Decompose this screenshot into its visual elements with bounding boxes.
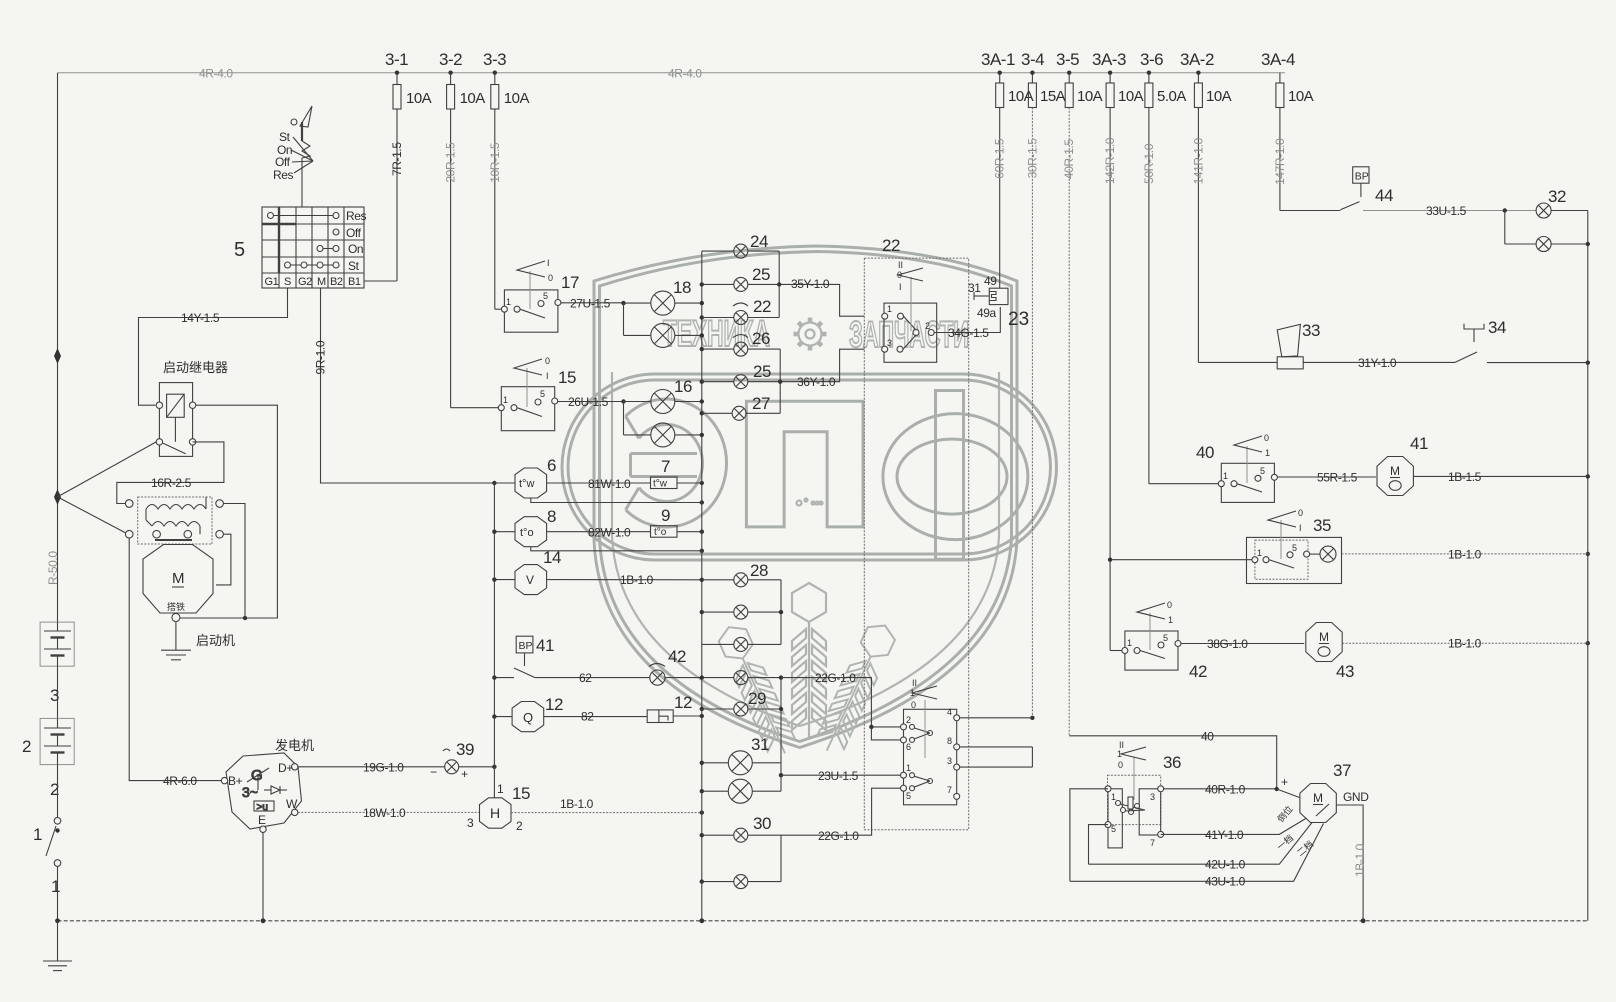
svg-text:10A: 10A xyxy=(1077,88,1103,105)
svg-text:30: 30 xyxy=(753,814,771,833)
svg-text:3~: 3~ xyxy=(242,784,258,800)
lamp 16b xyxy=(624,423,702,447)
lamp 31a xyxy=(702,751,781,775)
battery 1 box xyxy=(40,622,74,666)
lamp 16a xyxy=(624,390,702,414)
svg-text:M: M xyxy=(1390,464,1400,478)
wire E to bus xyxy=(262,832,264,920)
svg-text:25: 25 xyxy=(752,265,770,284)
ground main xyxy=(43,961,72,971)
svg-text:B1: B1 xyxy=(348,276,361,288)
wire solenoid right top down xyxy=(223,504,245,619)
table column labels xyxy=(265,276,361,288)
svg-text:27U-1.5: 27U-1.5 xyxy=(570,297,611,311)
lamp 32b xyxy=(1505,237,1588,252)
svg-text:3А-4: 3А-4 xyxy=(1261,50,1295,69)
starter bottom terminal xyxy=(172,614,180,622)
wire bus to V xyxy=(494,579,515,581)
wire bus to Q xyxy=(494,716,512,718)
svg-text:31Y-1.0: 31Y-1.0 xyxy=(1358,356,1397,370)
svg-text:0: 0 xyxy=(1118,760,1123,770)
svg-text:18: 18 xyxy=(673,278,691,297)
tachometer Q 12 xyxy=(512,702,544,732)
svg-text:1: 1 xyxy=(51,877,60,896)
wire 82W-1.0 xyxy=(547,526,651,540)
svg-text:5: 5 xyxy=(1260,466,1265,476)
wire 55R-1.5 xyxy=(1277,471,1376,485)
switch 36 contacts xyxy=(1105,740,1164,848)
svg-text:5: 5 xyxy=(1111,824,1116,834)
wire 62 xyxy=(494,671,649,685)
wire pin1 to 43U xyxy=(1070,789,1108,882)
watermark capsule outer xyxy=(562,374,1057,560)
svg-text:17: 17 xyxy=(561,273,579,292)
svg-text:t°w: t°w xyxy=(519,478,534,490)
wire 38G-1.0 xyxy=(1181,637,1304,651)
svg-text:B2: B2 xyxy=(330,276,343,288)
svg-text:39: 39 xyxy=(456,740,474,759)
svg-text:147R-1.0: 147R-1.0 xyxy=(1273,138,1287,185)
wire pin5 to 42U xyxy=(1089,825,1109,865)
wire solenoid to border tap xyxy=(58,497,126,533)
node lamp16 junction xyxy=(621,399,625,403)
svg-text:40R-1.5: 40R-1.5 xyxy=(1062,139,1076,180)
wire right border xyxy=(1587,211,1589,921)
svg-text:3-1: 3-1 xyxy=(385,50,408,69)
svg-text:62: 62 xyxy=(579,671,592,685)
gauge t°o 8 xyxy=(515,517,547,547)
wire 1B-1.5 xyxy=(1413,470,1587,484)
svg-text:St: St xyxy=(279,130,291,144)
svg-text:1B-1.5: 1B-1.5 xyxy=(1448,470,1482,484)
fuse 3-1 10A xyxy=(393,73,432,109)
wire 147R to switch44 xyxy=(1280,210,1341,212)
svg-text:32: 32 xyxy=(1548,187,1566,206)
wire 142R to 42 xyxy=(1110,650,1122,652)
svg-text:43U-1.0: 43U-1.0 xyxy=(1205,875,1246,889)
svg-text:22: 22 xyxy=(753,297,771,316)
node 25b row right xyxy=(778,380,782,384)
svg-text:0: 0 xyxy=(1264,433,1269,443)
wire 14Y-1.5 xyxy=(139,288,288,405)
svg-text:25: 25 xyxy=(753,362,771,381)
svg-text:34G-1.5: 34G-1.5 xyxy=(948,326,989,340)
svg-text:19G-1.0: 19G-1.0 xyxy=(363,761,404,775)
svg-text:0: 0 xyxy=(1298,508,1303,518)
svg-text:31: 31 xyxy=(751,735,769,754)
watermark shield thin inner line xyxy=(612,372,999,726)
lamp group 30 xyxy=(702,828,781,888)
watermark letter E (Э) xyxy=(626,399,727,527)
fuse 3-2 10A xyxy=(447,73,486,109)
battery 2 cells xyxy=(44,718,71,764)
svg-text:E: E xyxy=(258,813,266,827)
wire 20R to switch15 xyxy=(451,407,499,409)
svg-text:26U-1.5: 26U-1.5 xyxy=(568,395,609,409)
lamp in 35 xyxy=(1310,546,1336,562)
svg-text:33: 33 xyxy=(1302,321,1320,340)
node fuse taps on top bus xyxy=(395,71,399,75)
wire 23U-1.5 xyxy=(781,769,901,783)
table contacts On row xyxy=(317,246,339,252)
svg-text:3-5: 3-5 xyxy=(1056,50,1079,69)
lamp on row 677 xyxy=(702,671,781,685)
svg-text:42: 42 xyxy=(668,647,686,666)
wire relay to starter xyxy=(180,405,277,618)
svg-text:40: 40 xyxy=(1201,730,1214,744)
svg-text:I: I xyxy=(547,258,550,268)
wire pin6 link xyxy=(869,725,900,740)
wire 10R-1.5 xyxy=(494,109,496,309)
wire 4R-4.0 top bus xyxy=(58,72,1286,74)
svg-text:43: 43 xyxy=(1336,662,1354,681)
svg-text:0: 0 xyxy=(911,700,916,710)
wire 19G-1.0 xyxy=(298,761,445,775)
BP box 41 xyxy=(516,636,533,653)
svg-text:B+: B+ xyxy=(228,774,243,788)
wire 36Y-1.0 xyxy=(780,349,864,389)
lamp 29 xyxy=(702,702,781,716)
svg-text:1: 1 xyxy=(1168,615,1173,625)
svg-text:I: I xyxy=(1299,523,1302,533)
fuse 3A-3 10A xyxy=(1106,73,1144,108)
svg-text:3-4: 3-4 xyxy=(1021,50,1044,69)
svg-text:7: 7 xyxy=(1150,838,1155,848)
svg-text:22G-1.0: 22G-1.0 xyxy=(815,671,856,685)
gauge V 14 xyxy=(515,565,547,595)
wire left border battery feed xyxy=(57,73,59,622)
battery 1 cells xyxy=(44,622,71,666)
lamp 25b xyxy=(702,375,780,389)
watermark capsule inner xyxy=(568,380,1051,554)
wire battery to switch xyxy=(57,765,59,818)
svg-text:40R-1.0: 40R-1.0 xyxy=(1205,783,1246,797)
svg-text:Q: Q xyxy=(523,710,533,725)
svg-text:142R-1.0: 142R-1.0 xyxy=(1103,137,1117,184)
svg-text:5: 5 xyxy=(234,239,245,261)
svg-text:82W-1.0: 82W-1.0 xyxy=(588,526,631,540)
harness tall box xyxy=(864,258,968,830)
wire 27U-1.5 xyxy=(561,297,624,311)
node lamp18 junction xyxy=(621,301,625,305)
svg-text:3: 3 xyxy=(467,816,474,830)
fuse 3A-1 10A xyxy=(996,73,1034,108)
svg-text:8: 8 xyxy=(947,736,952,746)
wire t°o second xyxy=(531,547,702,551)
switch 42 xyxy=(1122,600,1181,670)
wire 50R-1.0 xyxy=(1148,108,1150,484)
wire 30R-1.5 xyxy=(1031,108,1033,718)
svg-text:12: 12 xyxy=(545,695,563,714)
svg-text:5.0A: 5.0A xyxy=(1157,88,1186,105)
svg-text:3А-2: 3А-2 xyxy=(1180,50,1214,69)
svg-text:15: 15 xyxy=(558,368,576,387)
fuse 3A-2 10A xyxy=(1194,73,1231,108)
svg-text:3-6: 3-6 xyxy=(1140,50,1163,69)
svg-text:15: 15 xyxy=(512,784,530,803)
wire battery link xyxy=(57,666,59,718)
svg-text:t°o: t°o xyxy=(654,527,667,538)
wire 16R-2.5 xyxy=(117,442,224,504)
svg-text:发电机: 发电机 xyxy=(275,738,314,753)
svg-text:1: 1 xyxy=(33,825,42,844)
svg-text:33U-1.5: 33U-1.5 xyxy=(1426,204,1467,218)
ignition switch table 5 xyxy=(262,207,364,288)
starter motor octagon xyxy=(143,545,213,614)
svg-text:5: 5 xyxy=(906,791,911,801)
svg-text:R-50.0: R-50.0 xyxy=(46,551,60,585)
svg-text:2: 2 xyxy=(906,715,911,725)
wire 35Y-1.0 xyxy=(779,277,864,316)
watermark small marks xyxy=(797,499,823,506)
svg-text:I: I xyxy=(899,282,902,292)
BP box 44 xyxy=(1353,167,1369,183)
svg-text:1: 1 xyxy=(503,395,508,405)
svg-text:1B-1.0: 1B-1.0 xyxy=(560,797,594,811)
lamp group 26-25-27 box right edge xyxy=(779,349,781,413)
svg-text:2: 2 xyxy=(516,819,523,833)
svg-text:1: 1 xyxy=(906,763,911,773)
svg-text:3: 3 xyxy=(1150,792,1155,802)
svg-text:D+: D+ xyxy=(278,761,293,775)
lamp 42 xyxy=(649,664,665,686)
svg-text:22G-1.0: 22G-1.0 xyxy=(818,829,859,843)
key switch position fan xyxy=(291,137,313,173)
motor 43 xyxy=(1306,623,1342,662)
svg-text:2: 2 xyxy=(925,321,930,331)
svg-text:+: + xyxy=(461,767,468,781)
gauge t°w 6 xyxy=(515,468,547,498)
wire bus to t°o xyxy=(494,531,515,533)
lamp group 24-25-22 box right edge xyxy=(778,251,780,317)
fuse 3-6 5.0A xyxy=(1145,73,1186,108)
svg-text:1: 1 xyxy=(506,297,511,307)
svg-text:10R-1.5: 10R-1.5 xyxy=(488,142,502,183)
svg-text:Off: Off xyxy=(275,155,291,169)
svg-text:G1: G1 xyxy=(265,276,279,288)
svg-text:49a: 49a xyxy=(977,306,997,320)
svg-text:0: 0 xyxy=(897,270,902,280)
start relay coil xyxy=(167,394,185,442)
key switch flag xyxy=(291,106,312,141)
svg-text:3-2: 3-2 xyxy=(439,50,462,69)
svg-text:II: II xyxy=(898,260,903,270)
lamp 18a xyxy=(624,291,702,315)
wire 34G-1.5 xyxy=(934,307,1000,340)
generator internals xyxy=(242,767,287,813)
fuse 3-3 10A xyxy=(491,73,530,109)
wire key to table xyxy=(301,165,303,207)
svg-text:37: 37 xyxy=(1333,761,1351,780)
wire 4R-6.0 xyxy=(129,538,221,788)
hourmeter H octagon 15 xyxy=(480,798,512,828)
svg-text:42U-1.0: 42U-1.0 xyxy=(1205,858,1246,872)
lamp 22 xyxy=(702,303,779,325)
svg-text:31: 31 xyxy=(968,281,981,295)
switch 22 xyxy=(882,260,937,362)
svg-text:3: 3 xyxy=(887,338,892,348)
svg-text:1: 1 xyxy=(497,782,504,796)
svg-text:26: 26 xyxy=(752,329,770,348)
svg-text:41: 41 xyxy=(536,636,554,655)
svg-text:81W-1.0: 81W-1.0 xyxy=(588,477,631,491)
svg-text:0: 0 xyxy=(1167,600,1172,610)
svg-text:10A: 10A xyxy=(504,90,530,107)
svg-text:16: 16 xyxy=(674,377,692,396)
svg-text:M: M xyxy=(1319,630,1329,644)
svg-text:BP: BP xyxy=(1355,171,1369,183)
lamp 24 xyxy=(702,244,779,258)
svg-text:4: 4 xyxy=(947,707,952,717)
ground starter xyxy=(161,650,191,660)
fuse 3A-4 10A xyxy=(1276,73,1314,108)
solenoid box xyxy=(138,497,212,544)
fuse 3-4 15A xyxy=(1028,73,1065,108)
svg-text:5: 5 xyxy=(1292,543,1297,553)
svg-text:36: 36 xyxy=(1163,753,1181,772)
svg-text:I: I xyxy=(546,371,549,381)
wire 81W-1.0 xyxy=(547,477,651,491)
svg-text:1: 1 xyxy=(1265,448,1270,458)
watermark shield outer outline xyxy=(594,246,1017,748)
svg-text:29: 29 xyxy=(748,689,766,708)
svg-text:3-3: 3-3 xyxy=(483,50,506,69)
svg-text:23U-1.5: 23U-1.5 xyxy=(818,769,859,783)
wire lamp42 to bus xyxy=(665,677,702,679)
start relay box xyxy=(159,383,192,457)
switch BP blade xyxy=(514,653,535,678)
svg-text:9: 9 xyxy=(661,506,670,525)
wire box7 to bus xyxy=(677,482,702,484)
lamp group right link xyxy=(780,580,782,645)
svg-text:38G-1.0: 38G-1.0 xyxy=(1207,637,1248,651)
wire H to lamp bus 1B-1.0 xyxy=(511,797,702,813)
wire 147R-1.0 xyxy=(1279,108,1281,211)
svg-text:24: 24 xyxy=(750,232,768,251)
switch 36 outer box xyxy=(1108,775,1161,824)
svg-text:50R-1.0: 50R-1.0 xyxy=(1142,143,1156,184)
watermark shield inner outline xyxy=(600,252,1012,742)
solenoid internal links xyxy=(146,497,206,540)
solenoid terminals xyxy=(125,500,133,508)
svg-text:55R-1.5: 55R-1.5 xyxy=(1317,471,1358,485)
svg-text:II: II xyxy=(912,678,917,688)
switch 34 xyxy=(1455,324,1588,363)
wire 141R-1.0 xyxy=(1197,108,1199,363)
svg-text:1B-1.0: 1B-1.0 xyxy=(620,573,654,587)
svg-text:34: 34 xyxy=(1488,318,1506,337)
wire t°w second xyxy=(531,498,702,503)
svg-text:BP: BP xyxy=(519,640,533,652)
svg-text:3А-3: 3А-3 xyxy=(1092,50,1126,69)
svg-text:10A: 10A xyxy=(1288,88,1314,105)
wire relay to border tap xyxy=(58,442,157,497)
svg-text:1B-1.0: 1B-1.0 xyxy=(1448,548,1482,562)
svg-text:42: 42 xyxy=(1189,662,1207,681)
battery 2 box xyxy=(40,718,74,764)
svg-text:1: 1 xyxy=(1223,471,1228,481)
svg-text:14Y-1.5: 14Y-1.5 xyxy=(181,311,220,325)
lamp 18b xyxy=(624,323,702,347)
svg-text:>u: >u xyxy=(257,802,268,813)
generator octagon xyxy=(226,753,302,829)
switch 17 xyxy=(501,258,561,332)
svg-text:27: 27 xyxy=(752,394,770,413)
svg-text:H: H xyxy=(490,805,500,821)
svg-text:t°o: t°o xyxy=(520,527,534,539)
wire 40 xyxy=(1069,730,1277,790)
wire box9 to bus xyxy=(677,531,702,533)
lamp 31b xyxy=(702,779,781,803)
wire 33U-1.5 xyxy=(1363,204,1536,218)
wire 31Y-1.0 xyxy=(1303,356,1455,370)
svg-text:23: 23 xyxy=(1008,309,1029,330)
bottom bus xyxy=(58,920,1588,922)
wire 22G-1.0 upper xyxy=(781,671,901,727)
svg-text:1: 1 xyxy=(1257,548,1262,558)
start relay contact blade xyxy=(163,443,186,453)
svg-text:14: 14 xyxy=(543,548,561,567)
svg-text:4R-6.0: 4R-6.0 xyxy=(163,774,197,788)
switch 40 xyxy=(1218,433,1277,502)
table contacts Res row xyxy=(268,213,340,219)
svg-text:搭铁: 搭铁 xyxy=(167,601,185,612)
svg-text:22: 22 xyxy=(882,236,900,255)
svg-text:12: 12 xyxy=(674,693,692,712)
svg-text:1: 1 xyxy=(887,304,892,314)
svg-text:GND: GND xyxy=(1343,790,1369,804)
solenoid coil row 1 xyxy=(146,505,206,510)
svg-text:3А-1: 3А-1 xyxy=(981,50,1015,69)
svg-text:7: 7 xyxy=(661,457,670,476)
wire 1B-1.0 from 43 xyxy=(1342,637,1588,651)
svg-text:36Y-1.0: 36Y-1.0 xyxy=(797,375,836,389)
svg-text:49: 49 xyxy=(984,274,997,288)
svg-text:On: On xyxy=(348,242,363,256)
lamp 26 xyxy=(702,335,780,357)
wire pin4 to 30R xyxy=(960,717,1033,719)
switch 38 xyxy=(901,678,960,805)
flasher connector 23 xyxy=(974,288,1008,304)
svg-text:7R-1.5: 7R-1.5 xyxy=(390,142,404,176)
wire 50R to switch 40 xyxy=(1149,483,1218,485)
svg-text:−: − xyxy=(430,765,437,779)
svg-text:1B-1.0: 1B-1.0 xyxy=(1448,637,1482,651)
key switch zigzag xyxy=(302,141,310,165)
disconnect switch 1 xyxy=(46,818,61,867)
svg-text:G2: G2 xyxy=(298,276,312,288)
svg-text:4R-4.0: 4R-4.0 xyxy=(199,67,233,81)
wire bus to ground xyxy=(57,921,59,961)
node tap arrow lower xyxy=(54,489,61,505)
generator terminals xyxy=(221,777,227,783)
svg-text:V: V xyxy=(526,573,534,587)
fuse 3-5 10A xyxy=(1065,73,1102,108)
svg-text:10A: 10A xyxy=(1008,88,1034,105)
svg-text:1: 1 xyxy=(1117,749,1122,759)
svg-text:0: 0 xyxy=(545,356,550,366)
svg-text:40: 40 xyxy=(1196,443,1214,462)
lamp group 28 xyxy=(702,573,781,652)
svg-text:0: 0 xyxy=(548,273,553,283)
wire 7R-1.5 xyxy=(396,109,398,281)
table contacts St row xyxy=(285,262,340,268)
wire 60R-1.5 xyxy=(999,108,1001,289)
svg-text:41: 41 xyxy=(1410,434,1428,453)
svg-text:M: M xyxy=(317,276,326,288)
svg-text:82: 82 xyxy=(581,710,594,724)
solenoid coil row 2 xyxy=(152,522,200,527)
